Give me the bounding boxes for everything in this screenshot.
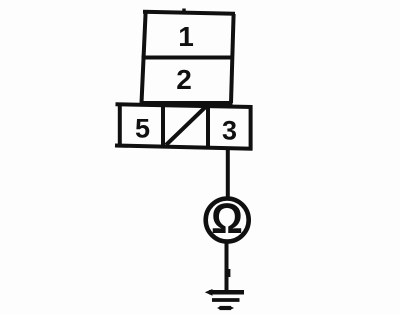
svg-text:3: 3 <box>222 116 237 146</box>
svg-text:Ω: Ω <box>211 195 243 243</box>
svg-text:1: 1 <box>178 21 194 52</box>
svg-text:5: 5 <box>135 114 150 144</box>
svg-text:2: 2 <box>176 64 192 95</box>
